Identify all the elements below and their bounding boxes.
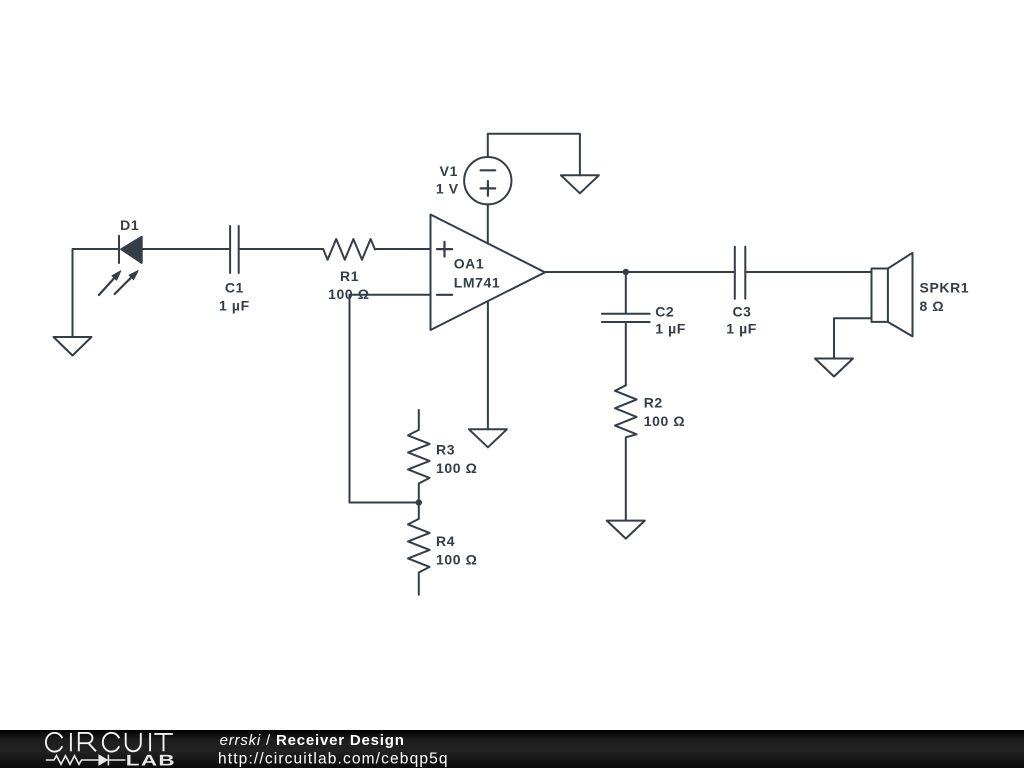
capacitor C3 — [735, 247, 746, 299]
ground — [561, 175, 599, 193]
CircuitLab logo CIRCUIT — [46, 733, 173, 752]
capacitor C1 — [230, 226, 239, 273]
wire — [142, 248, 230, 250]
resistor R4 — [408, 503, 430, 595]
wire — [487, 301, 489, 429]
resistor R1 — [323, 239, 375, 260]
wire — [350, 295, 431, 503]
svg-text:errski / Receiver Design: errski / Receiver Design — [220, 732, 405, 749]
svg-text:C3: C3 — [732, 304, 751, 320]
svg-text:8 Ω: 8 Ω — [920, 298, 945, 314]
svg-text:SPKR1: SPKR1 — [920, 280, 970, 296]
op-amp OA1 — [431, 215, 546, 331]
svg-text:OA1: OA1 — [454, 255, 485, 271]
node — [623, 269, 629, 275]
svg-text:100 Ω: 100 Ω — [328, 286, 369, 302]
speaker SPKR1 — [872, 253, 913, 337]
wire — [375, 248, 431, 250]
capacitor C2 — [602, 314, 650, 322]
wire — [834, 318, 872, 358]
svg-text:http://circuitlab.com/cebqp5q: http://circuitlab.com/cebqp5q — [218, 751, 449, 768]
svg-text:LAB: LAB — [126, 752, 176, 768]
wire — [488, 134, 580, 176]
svg-text:1 µF: 1 µF — [655, 321, 686, 337]
svg-text:1 µF: 1 µF — [219, 298, 250, 314]
resistor R2 — [615, 385, 637, 520]
svg-text:100 Ω: 100 Ω — [644, 413, 685, 429]
node — [416, 499, 422, 505]
wire — [625, 322, 627, 385]
svg-text:R4: R4 — [436, 533, 455, 549]
svg-text:C2: C2 — [655, 304, 674, 320]
wire — [239, 248, 324, 250]
svg-text:D1: D1 — [120, 217, 139, 233]
wire — [745, 271, 871, 273]
wire — [73, 249, 120, 337]
CircuitLab logo resistor-diode glyph — [46, 755, 126, 766]
svg-text:LM741: LM741 — [454, 275, 501, 291]
ground — [54, 337, 92, 356]
voltage source V1 — [464, 157, 511, 204]
wire — [487, 204, 489, 243]
resistor R3 — [408, 410, 430, 503]
svg-text:R3: R3 — [436, 441, 455, 457]
svg-text:R2: R2 — [644, 395, 663, 411]
wire — [625, 272, 627, 314]
svg-text:100 Ω: 100 Ω — [436, 552, 477, 568]
svg-text:1 V: 1 V — [436, 181, 459, 197]
ground — [607, 521, 645, 539]
photodiode D1 — [99, 236, 142, 295]
svg-text:R1: R1 — [340, 268, 359, 284]
ground — [469, 429, 507, 447]
svg-text:1 µF: 1 µF — [726, 321, 757, 337]
ground — [815, 359, 853, 377]
svg-text:C1: C1 — [225, 280, 244, 296]
svg-text:V1: V1 — [440, 163, 458, 179]
wire — [545, 271, 735, 273]
svg-text:100 Ω: 100 Ω — [436, 460, 477, 476]
bottom bar — [0, 730, 1024, 768]
